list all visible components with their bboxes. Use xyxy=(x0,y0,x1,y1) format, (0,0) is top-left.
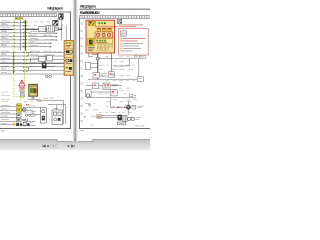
frame pin circles column xyxy=(81,23,83,122)
stub above motor xyxy=(127,101,129,105)
fuse highlight yellow small lower xyxy=(16,108,21,112)
right page bottom frame border xyxy=(79,128,150,129)
green row-end ticks lower xyxy=(17,110,24,118)
wire label box F2 xyxy=(140,55,145,58)
left small box B1 xyxy=(85,62,90,69)
module block CEM yellow xyxy=(64,41,73,76)
fuzz above wire xyxy=(43,97,54,100)
wire under photo icon xyxy=(28,97,38,100)
relay cell top-left xyxy=(89,21,96,25)
wire to labels right xyxy=(98,58,134,60)
end component right xyxy=(137,77,143,82)
inline connector bead xyxy=(38,100,40,102)
fine print scatter left upper xyxy=(28,22,56,47)
legend title red text xyxy=(119,25,143,28)
box inner text rows xyxy=(88,47,95,51)
faint labels above lower cluster xyxy=(1,92,10,102)
fine print scatter left mid xyxy=(30,51,61,71)
photo thumbnail icon xyxy=(29,84,38,96)
photo icon stand xyxy=(31,96,36,98)
relay cell left-mid xyxy=(88,38,94,46)
twin splice circles xyxy=(45,75,51,78)
warning subtext xyxy=(19,90,24,93)
wire labels upper left xyxy=(1,21,10,46)
warning text red xyxy=(19,87,25,90)
connector box lower B xyxy=(16,118,21,122)
fine print scatter left lower xyxy=(24,102,37,123)
small connector icon xyxy=(88,104,91,107)
bold mid wire xyxy=(0,62,64,64)
beige inline component xyxy=(97,115,102,119)
relay icon mid xyxy=(53,20,58,25)
twin ring terminals xyxy=(128,117,135,120)
relay icon legend top xyxy=(117,19,121,23)
connector box lower A xyxy=(16,113,21,117)
page bottom edge left xyxy=(0,140,150,142)
label fuzz right of rings xyxy=(136,117,142,119)
row end ticks xyxy=(50,33,58,48)
pin box row1 xyxy=(97,45,112,47)
wire labels center xyxy=(30,51,55,71)
highlighted module dashed outline xyxy=(14,20,25,97)
fuse component fed by red wire xyxy=(108,72,114,77)
page number text xyxy=(52,145,56,148)
dark glyph cluster y122 xyxy=(13,123,30,126)
page number field xyxy=(51,144,57,147)
strip callout icons xyxy=(15,17,23,19)
power distribution box outer xyxy=(86,20,115,53)
fuse highlight yellow small upper xyxy=(16,104,21,108)
red splice mark xyxy=(117,107,119,109)
flat terminal box xyxy=(118,122,126,125)
warning triangle xyxy=(19,80,25,86)
legend thumbnail xyxy=(120,31,126,36)
dark actuator glyph xyxy=(118,115,122,121)
right page left frame border xyxy=(79,19,80,129)
legend box xyxy=(119,29,149,55)
component box K1 xyxy=(39,27,46,32)
small box with red contact xyxy=(93,73,99,79)
box with red dot low xyxy=(111,90,118,96)
striped connector block xyxy=(123,115,127,121)
pager control xyxy=(42,144,74,147)
small box right of motor xyxy=(132,105,136,109)
green terminal ticks left module xyxy=(14,22,25,72)
small connector icon below warning xyxy=(20,93,24,97)
inner bus line xyxy=(20,20,22,50)
relay icon top xyxy=(59,14,64,20)
wire label box F1 xyxy=(134,55,139,58)
fine print scatter right lower xyxy=(85,103,98,125)
next page button xyxy=(68,145,70,148)
motor symbol lower xyxy=(22,107,26,111)
wires upper right of dashed box xyxy=(28,33,56,47)
drop wire to motor xyxy=(111,97,126,107)
green junction dots mid xyxy=(30,52,31,67)
mid junction jumpers xyxy=(29,52,31,70)
green terminals top xyxy=(98,22,105,24)
dashed module lower tail xyxy=(21,97,24,101)
connector legend strip xyxy=(0,14,57,17)
svg-text:Wiring Diagrams: Wiring Diagrams xyxy=(80,5,97,9)
wire labels upper right xyxy=(30,31,52,45)
red drop wire xyxy=(111,53,113,72)
wire from bus to K1 xyxy=(27,24,62,29)
junction dots xyxy=(25,22,28,72)
page number text below frame right xyxy=(80,129,85,132)
legend row 1 xyxy=(120,38,145,40)
left page right frame border xyxy=(70,12,71,129)
wires from beige component xyxy=(102,116,118,118)
wire y97 xyxy=(86,96,136,98)
marks at right end xyxy=(130,95,137,97)
right page header underline xyxy=(79,8,150,11)
label under box xyxy=(92,53,97,56)
drop wire under box left xyxy=(89,53,94,57)
pump icon dark xyxy=(42,62,47,68)
motor symbol dark xyxy=(126,105,131,110)
legend row 6 xyxy=(120,50,132,53)
bus continues xyxy=(97,60,99,79)
relay circles box xyxy=(95,32,113,38)
text fuzz right of relay xyxy=(112,84,119,86)
relay with two red contacts xyxy=(103,83,110,90)
junction component mid-low xyxy=(40,108,46,123)
prev page button xyxy=(47,145,49,148)
stub wires B1 xyxy=(91,64,98,68)
first page button xyxy=(42,145,45,148)
spine shadow between pages xyxy=(72,0,78,142)
left page bottom frame border xyxy=(0,128,71,129)
text fuzz beside xyxy=(101,73,107,77)
fine print scatter right xyxy=(99,56,137,113)
relay box mid-low xyxy=(52,108,63,124)
wire bundle left column mid xyxy=(0,52,13,74)
component box M1 xyxy=(39,56,46,61)
last page button xyxy=(71,145,74,148)
svg-text:POWER DISTRIBUTION: POWER DISTRIBUTION xyxy=(80,11,100,15)
faint marks near frame xyxy=(84,116,86,118)
bus connector circle xyxy=(96,57,99,60)
component box K2 connector xyxy=(47,26,55,32)
lower wire extensions xyxy=(21,107,40,126)
small box right of connector xyxy=(54,27,58,30)
sensor with ring xyxy=(86,90,92,98)
svg-text:Wiring Diagrams: Wiring Diagrams xyxy=(47,7,63,11)
small ring left of motor xyxy=(124,106,126,108)
legend row 5 xyxy=(120,48,141,50)
wire labels mid left xyxy=(1,51,10,73)
page background xyxy=(0,0,150,142)
vertical bus inside dashed module xyxy=(25,20,27,50)
box with red dot row2 xyxy=(93,83,99,89)
wire bundle left column upper xyxy=(0,22,13,47)
branch down right xyxy=(88,59,139,80)
left rows end bus xyxy=(12,52,14,74)
bus stubs xyxy=(14,22,25,47)
wire y92 xyxy=(91,91,118,93)
wire row y85 xyxy=(86,84,122,86)
main bus drop xyxy=(97,53,99,57)
vertical wires right of cluster xyxy=(36,101,66,125)
pin box row2 xyxy=(97,48,108,50)
bottom toolbar area xyxy=(0,140,150,150)
vertical feeders to module xyxy=(62,19,67,40)
motor to actuator wire xyxy=(127,110,129,115)
left page header underline xyxy=(0,11,70,14)
legend row 3 xyxy=(120,43,143,45)
legend row 2 xyxy=(120,40,138,43)
bold feed wire row xyxy=(0,28,62,30)
page number text below frame left xyxy=(1,129,5,132)
connector legend strip right xyxy=(79,16,150,19)
legend row 4 xyxy=(120,45,139,48)
spine bottom tab xyxy=(74,138,76,143)
fine print above frame right xyxy=(135,125,145,128)
red splice dots xyxy=(26,104,29,105)
twin splice circles lower xyxy=(25,114,30,121)
ground hatch lower-left xyxy=(22,120,26,122)
component box M2 xyxy=(47,55,53,61)
red feed line to legend xyxy=(95,27,118,29)
label fuzz right of motor xyxy=(137,106,144,108)
lower-left wire labels xyxy=(1,105,10,124)
lower-left wire bundle xyxy=(0,107,16,125)
mid bus stubs xyxy=(14,52,26,74)
wires feeding module right side xyxy=(26,52,64,74)
micro marks right of cluster xyxy=(31,111,36,117)
green terminal box xyxy=(95,39,113,44)
mini fuse row xyxy=(97,28,111,31)
